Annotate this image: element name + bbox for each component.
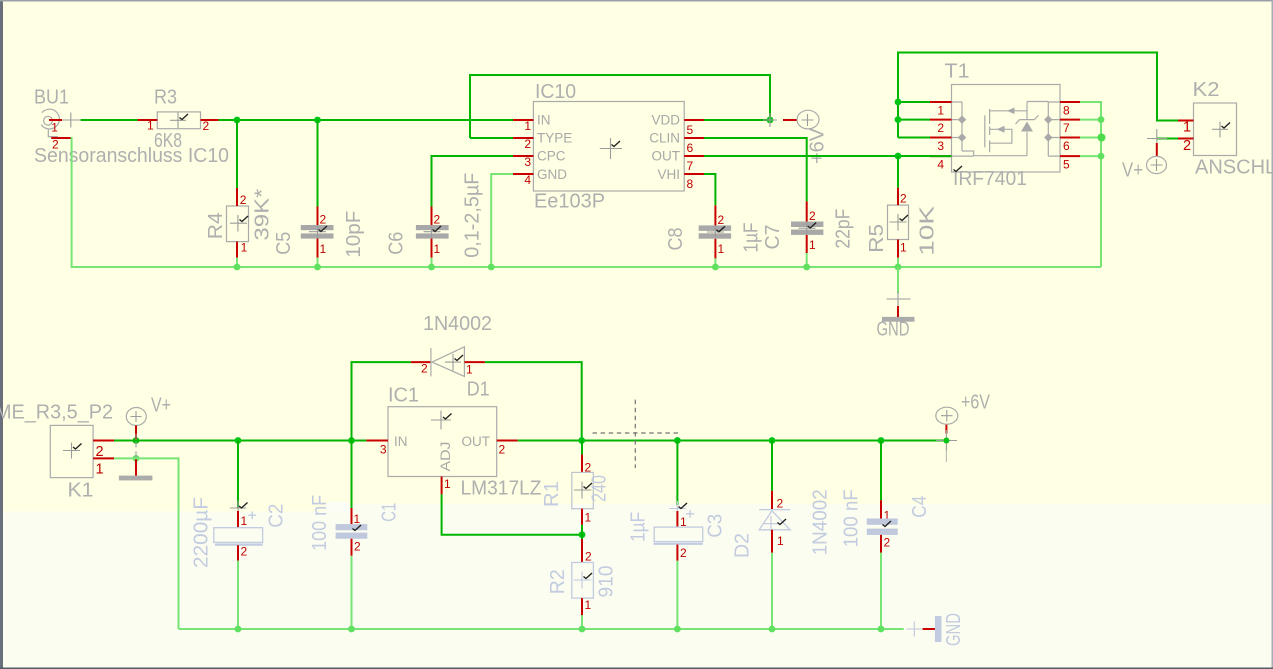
- svg-text:T1: T1: [945, 61, 970, 83]
- svg-text:1: 1: [96, 462, 104, 478]
- svg-text:910: 910: [596, 566, 618, 598]
- capacitor C5: [273, 211, 365, 258]
- supply +6V symbol (top): [763, 110, 829, 164]
- capacitor C3 1uF polarized: [628, 441, 727, 630]
- svg-text:V+: V+: [151, 395, 171, 417]
- wire net CLIN to C7: [704, 137, 807, 201]
- svg-text:R5: R5: [866, 224, 888, 253]
- wire net V+ to K2 pin2: [1157, 138, 1178, 140]
- svg-text:5: 5: [687, 123, 694, 137]
- svg-text:1: 1: [585, 598, 592, 612]
- svg-text:2: 2: [434, 213, 441, 227]
- svg-text:1: 1: [466, 363, 473, 377]
- svg-text:Sensoranschluss IC10: Sensoranschluss IC10: [34, 145, 229, 167]
- T1 right pin stubs and numbers: [1060, 102, 1080, 172]
- svg-text:Ee103P: Ee103P: [534, 191, 605, 213]
- svg-text:2: 2: [1183, 138, 1191, 154]
- capacitor C8: [665, 205, 763, 267]
- svg-text:GND: GND: [943, 613, 965, 646]
- svg-text:R1: R1: [541, 481, 563, 507]
- svg-text:1: 1: [320, 242, 327, 256]
- svg-text:C4: C4: [909, 496, 931, 518]
- svg-text:2: 2: [240, 193, 247, 207]
- wire net gate: OUT to T1 pin4: [930, 155, 952, 157]
- svg-text:BU1: BU1: [34, 87, 69, 109]
- svg-text:100 nF: 100 nF: [841, 489, 863, 547]
- svg-text:1: 1: [434, 242, 441, 256]
- wire net drain: T1 pins 5-8 light green: [1080, 102, 1106, 267]
- svg-text:IRF7401: IRF7401: [953, 168, 1027, 190]
- wire net IN: BU1 to R3: [81, 119, 138, 121]
- connector K2: [1193, 79, 1273, 179]
- svg-text:39K*: 39K*: [252, 188, 274, 240]
- svg-text:C5: C5: [273, 232, 295, 255]
- svg-text:22pF: 22pF: [833, 209, 855, 249]
- svg-text:1: 1: [524, 119, 531, 133]
- T1 left pin stubs and numbers: [930, 102, 952, 172]
- capacitor C2 2200uF polarized: [191, 441, 288, 630]
- svg-text:CLIN: CLIN: [649, 131, 680, 146]
- IC1 pin 2 OUT: [497, 441, 518, 457]
- diode D1 1N4002: [352, 313, 582, 441]
- R3 pin stubs: [137, 119, 218, 121]
- svg-text:IC10: IC10: [535, 81, 576, 103]
- transistor T1 IRF7401: [945, 61, 1061, 191]
- BU1 value label Sensoranschluss IC10: [34, 145, 229, 167]
- wire net source: T1 pins 1-3 and K2: [898, 53, 1178, 138]
- svg-text:1: 1: [444, 477, 451, 491]
- BU1 pin 1: [49, 120, 62, 134]
- supply +6V symbol (bottom right): [936, 392, 991, 463]
- svg-text:1N4002: 1N4002: [423, 313, 492, 335]
- svg-text:6: 6: [1063, 139, 1070, 153]
- IC1 pin 3 IN: [366, 441, 388, 457]
- wire net VDD to +6V: [704, 119, 770, 121]
- svg-text:ME_R3,5_P2: ME_R3,5_P2: [0, 402, 113, 424]
- svg-text:2: 2: [809, 209, 816, 223]
- capacitor C4 100nF: [867, 441, 931, 630]
- svg-text:OUT: OUT: [462, 434, 491, 449]
- svg-text:R3: R3: [154, 87, 177, 109]
- regulator IC1 LM317LZ: [388, 385, 542, 500]
- resistor R1 240: [541, 441, 611, 535]
- svg-text:2: 2: [937, 121, 944, 135]
- svg-text:1: 1: [718, 242, 725, 256]
- svg-text:D2: D2: [732, 533, 754, 558]
- svg-text:1: 1: [777, 534, 784, 548]
- svg-text:C6: C6: [386, 232, 408, 255]
- svg-text:1: 1: [354, 512, 361, 526]
- ground GND symbol at K1: [119, 451, 152, 480]
- svg-text:CPC: CPC: [537, 149, 566, 164]
- svg-text:2: 2: [585, 550, 592, 564]
- resistor R5: [866, 192, 939, 256]
- svg-text:7: 7: [1063, 121, 1070, 135]
- svg-text:2: 2: [718, 213, 725, 227]
- svg-text:C3: C3: [705, 514, 727, 538]
- svg-text:1: 1: [241, 241, 248, 255]
- junction node C2 tap: [235, 437, 242, 444]
- supply V+ symbol (left): [126, 395, 171, 448]
- svg-text:1: 1: [1183, 120, 1191, 136]
- svg-text:100 nF: 100 nF: [309, 495, 331, 551]
- bus junction nodes light green: [234, 264, 902, 271]
- junction node C3 tap: [674, 437, 681, 444]
- IC10 block Ee103P: [533, 81, 684, 213]
- junction node C1/D1 tap: [348, 437, 355, 444]
- svg-text:0,1-2,5µF: 0,1-2,5µF: [462, 173, 484, 258]
- junction node V+ on main rail: [133, 437, 140, 444]
- svg-text:2: 2: [900, 192, 907, 206]
- svg-text:R4: R4: [205, 212, 227, 239]
- svg-text:1: 1: [937, 104, 944, 118]
- junction node ADJ/R1/R2: [579, 531, 586, 538]
- junction node D2 tap: [769, 437, 776, 444]
- svg-text:IN: IN: [537, 113, 551, 128]
- svg-text:4: 4: [524, 173, 531, 187]
- wire net V+ rail: K1 to IC1 IN: [114, 440, 366, 442]
- svg-text:1: 1: [900, 241, 907, 255]
- svg-text:2: 2: [680, 546, 687, 560]
- ground GND symbol below R5: [877, 267, 915, 341]
- svg-text:1: 1: [585, 511, 592, 525]
- bottom bus junction nodes: [235, 626, 885, 633]
- svg-text:10K: 10K: [917, 205, 939, 256]
- diode D2 1N4002: [732, 441, 863, 630]
- wire net ADJ to R1/R2: [442, 494, 582, 534]
- connector BU1: [34, 87, 81, 137]
- wire net GND from K1 pin1: [114, 458, 179, 629]
- svg-text:GND: GND: [537, 167, 567, 182]
- capacitor C6: [386, 173, 484, 258]
- svg-text:D1: D1: [467, 379, 490, 401]
- svg-text:ANSCHLUSS: ANSCHLUSS: [1195, 157, 1273, 179]
- ground GND symbol (bottom right, rotated): [907, 613, 965, 646]
- wire net GND pin4 of IC10: [491, 173, 513, 267]
- wire net IN: R3 to IC10: [219, 119, 513, 121]
- svg-text:2: 2: [499, 443, 506, 457]
- svg-text:LM317LZ: LM317LZ: [461, 478, 542, 500]
- IC1 pin 1 ADJ: [442, 477, 451, 495]
- svg-text:R2: R2: [547, 569, 569, 594]
- svg-text:7: 7: [687, 159, 694, 173]
- K1 pin 1: [93, 458, 114, 477]
- wire net OUT from IC10: [704, 155, 930, 157]
- svg-text:10pF: 10pF: [343, 211, 365, 258]
- K2 pin 2: [1178, 138, 1194, 154]
- svg-text:C8: C8: [665, 228, 687, 251]
- svg-text:1N4002: 1N4002: [810, 489, 832, 555]
- junction node OUT/R5/T1: [895, 153, 902, 160]
- C6 wire and pins (net CPC): [432, 155, 514, 267]
- svg-text:6K8: 6K8: [154, 130, 182, 152]
- resistor R2 910: [547, 535, 618, 629]
- IC10 right pin stubs and numbers: [684, 120, 704, 191]
- svg-text:1µF: 1µF: [741, 223, 763, 253]
- svg-text:4: 4: [937, 158, 944, 172]
- svg-text:2200µF: 2200µF: [191, 497, 213, 568]
- svg-text:C1: C1: [379, 503, 401, 522]
- svg-text:5: 5: [1063, 158, 1070, 172]
- wire net TYPE to +6V rail: [470, 75, 770, 138]
- svg-text:2: 2: [241, 545, 248, 559]
- svg-text:+6V: +6V: [807, 127, 829, 164]
- dashed crosshair marker: [593, 400, 680, 468]
- svg-text:3: 3: [524, 155, 531, 169]
- capacitor C7: [762, 201, 855, 267]
- svg-text:1: 1: [51, 120, 58, 134]
- svg-text:2: 2: [884, 536, 891, 550]
- BU1 pin 2: [51, 138, 71, 152]
- svg-text:2: 2: [320, 213, 327, 227]
- junction node C4 tap: [878, 437, 885, 444]
- svg-text:C2: C2: [266, 504, 288, 528]
- svg-text:1: 1: [241, 514, 248, 528]
- junction node R1/D1 tap: [578, 437, 585, 444]
- svg-text:1µF: 1µF: [628, 512, 650, 542]
- svg-text:+6V: +6V: [961, 392, 991, 414]
- svg-text:2: 2: [421, 362, 428, 376]
- svg-text:2: 2: [354, 540, 361, 554]
- T1 internal mosfet symbol: [952, 102, 1061, 157]
- junction node VDD/+6V: [767, 117, 774, 124]
- resistor R4: [205, 188, 274, 254]
- IC10 left pin stubs and numbers: [513, 119, 533, 187]
- svg-text:OUT: OUT: [652, 149, 681, 164]
- ground bus (top light green): [72, 137, 1101, 267]
- svg-text:TYPE: TYPE: [537, 131, 572, 146]
- svg-text:6: 6: [687, 141, 694, 155]
- svg-text:8: 8: [1063, 104, 1070, 118]
- junction nodes on T1 source rail: [895, 99, 902, 123]
- C5 wire and pins: [317, 120, 319, 267]
- svg-text:240: 240: [589, 475, 611, 502]
- svg-text:8: 8: [687, 177, 694, 191]
- svg-text:K2: K2: [1193, 79, 1220, 101]
- svg-text:GND: GND: [877, 319, 910, 341]
- K1 pin 2: [93, 441, 114, 461]
- svg-text:1: 1: [809, 238, 816, 252]
- svg-text:K1: K1: [68, 480, 94, 502]
- svg-text:VDD: VDD: [651, 113, 680, 128]
- resistor R3: [147, 87, 210, 153]
- svg-text:2: 2: [203, 119, 210, 133]
- svg-text:VHI: VHI: [657, 167, 680, 182]
- capacitor C1 100nF: [309, 441, 401, 630]
- svg-text:C7: C7: [762, 225, 784, 250]
- junction node at R4 tap: [234, 117, 241, 124]
- ground bus (bottom light green): [179, 628, 904, 630]
- K2 pin 1: [1178, 120, 1194, 136]
- junction node at C5 tap: [314, 117, 321, 124]
- svg-text:2: 2: [585, 461, 592, 475]
- svg-text:2: 2: [777, 497, 784, 511]
- svg-text:IN: IN: [394, 434, 408, 449]
- svg-text:V+: V+: [1122, 160, 1143, 182]
- supply V+ symbol (right): [1122, 129, 1167, 182]
- svg-text:3: 3: [937, 139, 944, 153]
- wire net VHI to C8: [704, 174, 715, 205]
- svg-text:3: 3: [380, 443, 387, 457]
- connector K1: [0, 402, 113, 502]
- svg-text:2: 2: [524, 137, 531, 151]
- svg-text:IC1: IC1: [388, 385, 419, 407]
- wire net +6V output rail: [518, 440, 947, 442]
- svg-text:ADJ: ADJ: [438, 442, 453, 472]
- R4 wire and pins: [236, 120, 238, 267]
- R5 wire and pins: [897, 156, 899, 267]
